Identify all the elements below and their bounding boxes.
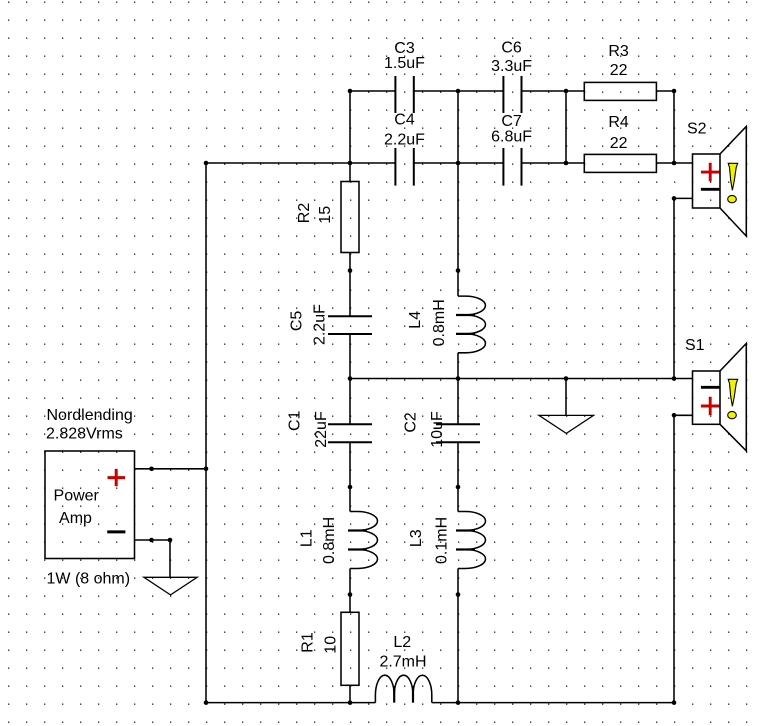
junction amp minus / ground corner xyxy=(168,538,173,543)
wire bottom bus row xyxy=(206,702,674,704)
amp plus mark xyxy=(108,469,126,486)
svg-text:S1: S1 xyxy=(685,337,705,354)
junction top bus / C3 left xyxy=(348,89,353,94)
junction amp plus / left bus xyxy=(204,467,209,472)
capacitor C4 xyxy=(395,148,413,186)
svg-text:S2: S2 xyxy=(687,120,707,137)
junction bottom bus / left corner xyxy=(204,700,209,705)
svg-text:22: 22 xyxy=(610,62,628,79)
svg-text:2.7mH: 2.7mH xyxy=(379,654,426,671)
svg-text:C4: C4 xyxy=(394,112,415,129)
junction top bus / C6-R3 xyxy=(564,89,569,94)
wire amp minus output xyxy=(135,539,171,541)
svg-text:0.1mH: 0.1mH xyxy=(434,517,451,564)
svg-text:10: 10 xyxy=(323,636,340,654)
junction row2 / R4-S2 plus xyxy=(672,161,677,166)
capacitor C1 xyxy=(328,424,372,442)
svg-text:1.5uF: 1.5uF xyxy=(384,55,425,72)
wire column x=566 top segment xyxy=(565,91,567,163)
svg-text:6.8uF: 6.8uF xyxy=(491,128,532,145)
speaker S1 plus mark xyxy=(701,397,720,416)
speaker S2 plus mark xyxy=(701,163,720,182)
inductor L4 xyxy=(456,296,486,353)
wire S1 plus pin xyxy=(674,414,693,416)
inductor L3 xyxy=(456,512,486,569)
capacitor C5 xyxy=(328,316,372,334)
svg-text:C5: C5 xyxy=(289,311,306,332)
svg-text:22: 22 xyxy=(610,135,628,152)
junction row2 / C4-C7 xyxy=(456,161,461,166)
junction top bus / R3 right xyxy=(672,89,677,94)
junction top bus / C3-C6 xyxy=(456,89,461,94)
speaker S2 minus mark xyxy=(701,188,720,191)
svg-text:10uF: 10uF xyxy=(429,411,446,448)
svg-text:Nordlending: Nordlending xyxy=(47,407,133,424)
speaker S1 minus mark xyxy=(701,386,720,389)
wire right vertical bus x=674 segments xyxy=(673,91,675,703)
inductor L2 xyxy=(375,675,431,702)
svg-text:1W (8 ohm): 1W (8 ohm) xyxy=(47,571,131,588)
junction C1 bottom pin xyxy=(348,485,353,490)
capacitor C7 xyxy=(503,148,521,186)
ground amp xyxy=(144,577,197,595)
junction S2 minus corner xyxy=(672,196,677,201)
wire top bus row (C3/C6/R3 row) xyxy=(350,90,674,92)
junction L4 top pin xyxy=(456,268,461,273)
svg-text:C2: C2 xyxy=(403,412,420,433)
svg-text:L3: L3 xyxy=(408,529,425,547)
svg-text:C6: C6 xyxy=(501,39,522,56)
junction mid bus / L4-C2 xyxy=(456,376,461,381)
svg-text:R4: R4 xyxy=(608,114,629,131)
wire left vertical bus xyxy=(205,163,207,703)
svg-text:Amp: Amp xyxy=(59,510,92,527)
junction bottom bus / L3 xyxy=(456,700,461,705)
junction mid bus / ground xyxy=(564,376,569,381)
junction L1 bottom pin xyxy=(348,592,353,597)
svg-text:R1: R1 xyxy=(300,632,317,653)
capacitor C6 xyxy=(503,76,521,113)
junction row2 / R2 top xyxy=(348,161,353,166)
wire column x=458 segments xyxy=(457,91,459,703)
resistor R1 xyxy=(341,612,359,685)
resistor R3 xyxy=(584,82,656,100)
capacitor C3 xyxy=(395,76,413,113)
inductor L1 xyxy=(348,512,378,569)
junction mid bus / S1 minus xyxy=(672,376,677,381)
ground mid circuit xyxy=(539,415,594,433)
svg-text:2.828Vrms: 2.828Vrms xyxy=(46,426,123,443)
junction bottom bus / R1 xyxy=(348,700,353,705)
wire column x=350 segments xyxy=(349,91,351,703)
svg-text:R2: R2 xyxy=(296,203,313,224)
junction R2 bottom pin xyxy=(348,268,353,273)
svg-text:C1: C1 xyxy=(287,410,304,431)
svg-text:22uF: 22uF xyxy=(313,411,330,448)
svg-text:L1: L1 xyxy=(299,529,316,547)
wire middle bus row (to S1 minus) xyxy=(350,378,693,380)
resistor R2 xyxy=(341,182,359,253)
svg-text:0.8mH: 0.8mH xyxy=(431,299,448,346)
capacitor C2 xyxy=(436,424,480,442)
speaker S1 alert icon xyxy=(728,379,738,419)
svg-text:15: 15 xyxy=(317,206,334,224)
svg-text:L2: L2 xyxy=(393,634,411,651)
power amp V1 box xyxy=(45,451,135,559)
junction bottom bus / right corner xyxy=(672,700,677,705)
svg-text:2.2uF: 2.2uF xyxy=(384,131,425,148)
junction C2 bottom pin xyxy=(456,485,461,490)
wire second bus row (C4/C7/R4 row to S2 plus) xyxy=(206,162,693,164)
junction row2 / left bus corner xyxy=(204,161,209,166)
junction S1 plus corner xyxy=(672,413,677,418)
svg-text:R3: R3 xyxy=(608,43,629,60)
junction amp minus pin xyxy=(149,538,154,543)
svg-text:3.3uF: 3.3uF xyxy=(491,58,532,75)
junction L3 bottom pin xyxy=(456,592,461,597)
wire ground stub mid circuit xyxy=(565,379,567,416)
resistor R4 xyxy=(584,154,656,172)
svg-text:Power: Power xyxy=(54,488,100,505)
junction amp plus pin xyxy=(149,467,154,472)
speaker S2 alert icon xyxy=(728,163,738,203)
wire S2 minus pin xyxy=(674,197,693,199)
speaker S1 body xyxy=(693,343,747,451)
svg-text:2.2uF: 2.2uF xyxy=(312,304,329,345)
amp minus mark xyxy=(107,530,125,533)
junction mid bus / C5-C1 xyxy=(348,376,353,381)
wire amp ground stub xyxy=(169,540,171,577)
wire amp plus output xyxy=(135,468,207,470)
speaker S2 body xyxy=(693,126,747,236)
svg-text:L4: L4 xyxy=(407,311,424,329)
svg-text:0.8mH: 0.8mH xyxy=(321,517,338,564)
junction row2 / C7-R4 xyxy=(564,161,569,166)
